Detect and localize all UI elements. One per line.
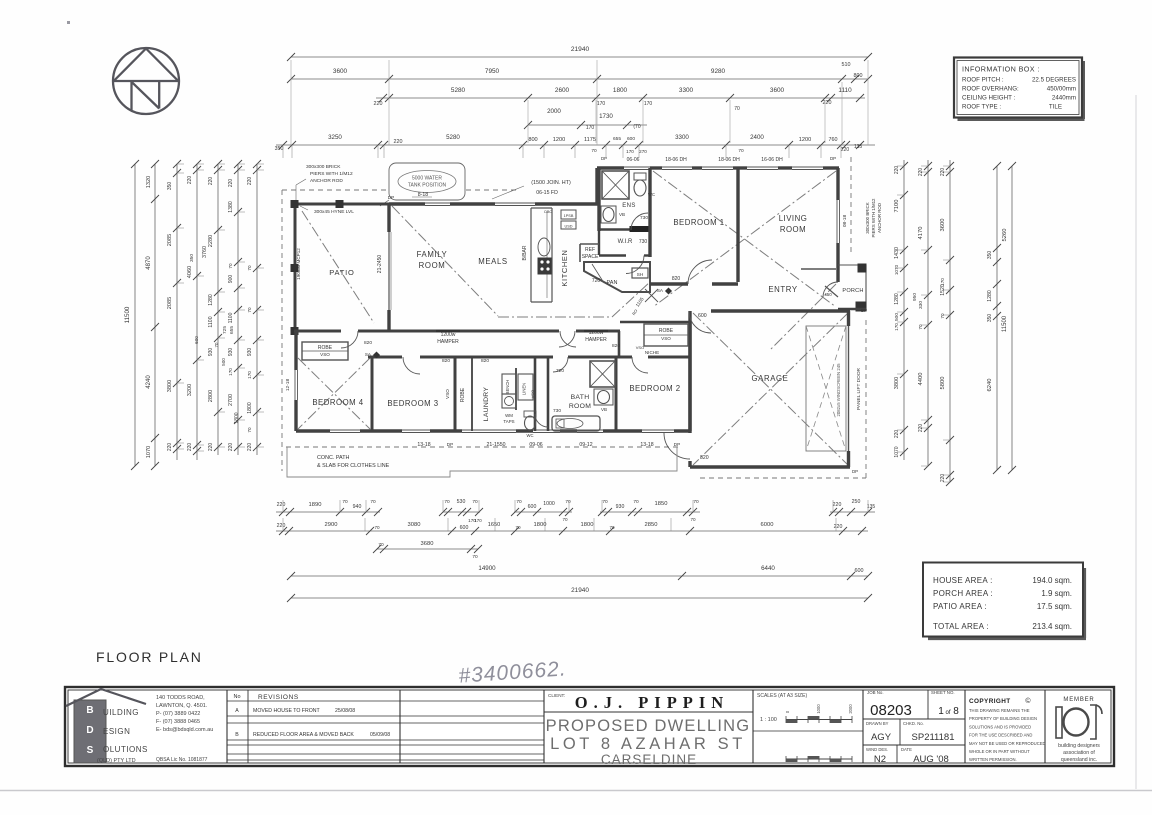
wall ens-wir divider bbox=[599, 228, 632, 230]
svg-text:P- (07) 3889 0422: P- (07) 3889 0422 bbox=[156, 711, 200, 717]
svg-text:1 : 100: 1 : 100 bbox=[760, 717, 777, 723]
dimension row 5280-2600-1800-3300-3600 bbox=[376, 97, 865, 99]
svg-text:BEDROOM 1: BEDROOM 1 bbox=[673, 218, 724, 227]
svg-text:930: 930 bbox=[208, 348, 214, 357]
ref space nook bbox=[580, 243, 599, 245]
svg-text:SA: SA bbox=[657, 288, 664, 293]
svg-text:1070: 1070 bbox=[146, 446, 152, 458]
svg-text:70: 70 bbox=[378, 542, 384, 548]
kitchen upper boxes bbox=[561, 210, 576, 219]
svg-text:600: 600 bbox=[528, 504, 537, 510]
svg-text:11500: 11500 bbox=[1002, 315, 1008, 332]
svg-text:213.4 sqm.: 213.4 sqm. bbox=[1032, 622, 1072, 631]
svg-text:655: 655 bbox=[613, 136, 621, 142]
svg-text:170: 170 bbox=[626, 149, 634, 154]
patio pier left-bottom bbox=[291, 328, 298, 335]
svg-text:600: 600 bbox=[460, 525, 469, 531]
scan artifact speck bbox=[67, 21, 70, 24]
wall garage top bbox=[711, 309, 850, 312]
svg-text:3080: 3080 bbox=[408, 522, 421, 528]
porch column bottom bbox=[856, 302, 866, 311]
svg-text:VSO: VSO bbox=[636, 345, 644, 350]
svg-text:TOTAL AREA :: TOTAL AREA : bbox=[933, 622, 989, 631]
svg-text:2000: 2000 bbox=[848, 704, 853, 714]
svg-text:3200: 3200 bbox=[187, 384, 193, 396]
svg-text:350: 350 bbox=[189, 254, 195, 262]
svg-text:220: 220 bbox=[228, 443, 234, 452]
svg-text:2085: 2085 bbox=[167, 234, 173, 246]
svg-text:ROOF PITCH :: ROOF PITCH : bbox=[962, 77, 1004, 84]
svg-text:JOB No.: JOB No. bbox=[867, 690, 884, 695]
kitchen sink bbox=[538, 238, 550, 256]
svg-text:170: 170 bbox=[474, 518, 482, 523]
svg-text:220: 220 bbox=[208, 177, 214, 186]
svg-text:2850: 2850 bbox=[645, 522, 658, 528]
ceiling line bed1-living diagonal a bbox=[653, 171, 836, 307]
svg-text:820: 820 bbox=[700, 455, 709, 461]
svg-text:MAY NOT BE USED OR REPRODUCED: MAY NOT BE USED OR REPRODUCED bbox=[969, 741, 1046, 746]
conc path outline bbox=[287, 447, 677, 477]
svg-text:1380: 1380 bbox=[228, 201, 234, 213]
svg-text:CONC. PATH: CONC. PATH bbox=[317, 455, 350, 461]
svg-text:THIS DRAWING REMAINS THE: THIS DRAWING REMAINS THE bbox=[969, 708, 1030, 713]
wall patio top bbox=[294, 203, 389, 206]
wall entry right below porch bbox=[836, 267, 839, 282]
wall ens east bbox=[648, 168, 651, 257]
svg-text:14900: 14900 bbox=[478, 565, 496, 572]
svg-text:AGY: AGY bbox=[871, 732, 892, 743]
svg-text:1070: 1070 bbox=[894, 264, 899, 275]
wc door arc bbox=[535, 414, 548, 427]
svg-text:of: of bbox=[945, 710, 950, 716]
svg-text:2400: 2400 bbox=[750, 134, 764, 141]
svg-text:DP: DP bbox=[388, 195, 394, 200]
svg-text:730: 730 bbox=[553, 408, 561, 414]
laundry tub bbox=[502, 394, 516, 408]
svg-text:DP: DP bbox=[674, 442, 680, 447]
svg-text:1850: 1850 bbox=[655, 501, 668, 507]
svg-text:220: 220 bbox=[374, 101, 383, 107]
svg-text:1200: 1200 bbox=[799, 137, 811, 143]
dimension column left 2280-1280-1100-930-2800 bbox=[217, 164, 219, 455]
svg-text:5280: 5280 bbox=[446, 134, 460, 141]
svg-text:300x300 BRICK: 300x300 BRICK bbox=[306, 164, 341, 170]
window 12-18 bed4 left bbox=[294, 370, 296, 400]
svg-text:350: 350 bbox=[987, 251, 993, 260]
svg-text:08203: 08203 bbox=[870, 702, 912, 719]
svg-text:220: 220 bbox=[894, 430, 900, 439]
svg-text:LAUNDRY: LAUNDRY bbox=[483, 387, 490, 422]
dimension column right 7100-1430-1280-3800 bbox=[903, 160, 905, 460]
svg-text:9280: 9280 bbox=[711, 68, 726, 75]
ceiling line bedroom4 diagonal b bbox=[298, 358, 370, 429]
svg-text:WM: WM bbox=[505, 413, 513, 418]
svg-text:NICHE: NICHE bbox=[645, 350, 659, 355]
ceiling line patio diagonal bbox=[302, 211, 374, 323]
svg-text:PATIO AREA :: PATIO AREA : bbox=[933, 602, 987, 611]
svg-text:220: 220 bbox=[940, 474, 946, 483]
svg-text:WIND DES.: WIND DES. bbox=[866, 747, 888, 752]
svg-text:CLIENT:: CLIENT: bbox=[548, 693, 565, 698]
svg-text:220: 220 bbox=[228, 179, 234, 188]
svg-text:170: 170 bbox=[597, 101, 606, 107]
wall garage right lower bbox=[847, 451, 850, 467]
svg-text:270: 270 bbox=[639, 149, 647, 154]
svg-text:PATIO: PATIO bbox=[329, 268, 354, 277]
svg-text:4400: 4400 bbox=[918, 373, 924, 386]
door 09-06 laundry bbox=[462, 429, 516, 431]
svg-text:VSO: VSO bbox=[661, 336, 671, 341]
svg-text:BEDROOM 4: BEDROOM 4 bbox=[312, 398, 363, 407]
svg-text:1PSB: 1PSB bbox=[564, 214, 574, 218]
svg-text:WRITTEN PERMISSION.: WRITTEN PERMISSION. bbox=[969, 757, 1017, 762]
wall wc-bath west bbox=[534, 357, 537, 431]
svg-text:330: 330 bbox=[918, 301, 924, 309]
svg-text:70: 70 bbox=[228, 263, 233, 269]
svg-text:70: 70 bbox=[374, 525, 380, 530]
svg-text:CEILING HEIGHT :: CEILING HEIGHT : bbox=[962, 95, 1015, 102]
dimension column left 220-4060-3200-220 bbox=[196, 164, 198, 460]
dimension row 21940 top bbox=[291, 56, 868, 58]
svg-text:600: 600 bbox=[855, 568, 864, 574]
svg-text:PROPOSED DWELLING: PROPOSED DWELLING bbox=[546, 717, 751, 735]
window small laundry bbox=[533, 429, 560, 431]
svg-text:1070: 1070 bbox=[894, 446, 900, 457]
svg-text:WC: WC bbox=[648, 192, 655, 197]
svg-text:association of: association of bbox=[1063, 750, 1095, 756]
svg-text:CARSELDINE: CARSELDINE bbox=[601, 752, 697, 767]
svg-text:350: 350 bbox=[275, 146, 284, 152]
svg-text:1200w: 1200w bbox=[441, 332, 456, 338]
svg-text:70: 70 bbox=[515, 525, 521, 530]
wir door arc bbox=[626, 256, 644, 274]
svg-text:1280: 1280 bbox=[208, 294, 214, 306]
svg-text:760: 760 bbox=[829, 137, 838, 143]
svg-text:1100: 1100 bbox=[228, 312, 234, 323]
wall hall south / bedrooms north bbox=[368, 356, 402, 359]
svg-text:INFORMATION BOX :: INFORMATION BOX : bbox=[962, 65, 1040, 74]
dimension column left 1320-4870-4240-1070 bbox=[154, 164, 156, 466]
svg-text:VSO: VSO bbox=[445, 389, 450, 399]
svg-text:ROOF TYPE :: ROOF TYPE : bbox=[962, 104, 1001, 111]
svg-text:4060: 4060 bbox=[187, 266, 193, 278]
window 18-06 living a bbox=[747, 166, 778, 168]
wall house bottom with windows bbox=[296, 429, 330, 432]
dimension bottom chain row A bbox=[276, 511, 380, 513]
svg-text:5280: 5280 bbox=[451, 87, 466, 94]
svg-text:ROOM: ROOM bbox=[419, 261, 446, 270]
shelf SH box bbox=[632, 268, 648, 278]
svg-text:PROPERTY OF BUILDING DESIGN: PROPERTY OF BUILDING DESIGN bbox=[969, 716, 1037, 721]
wall garage west bbox=[688, 311, 691, 433]
svg-text:LAWNTON, Q. 4501.: LAWNTON, Q. 4501. bbox=[156, 703, 208, 709]
window 8-18 meals top bbox=[425, 202, 450, 204]
svg-text:06-15 FD: 06-15 FD bbox=[536, 190, 558, 196]
svg-text:COPYRIGHT: COPYRIGHT bbox=[969, 698, 1011, 705]
bed1 door arc bbox=[688, 260, 712, 284]
svg-text:170: 170 bbox=[228, 368, 233, 376]
svg-text:2280: 2280 bbox=[208, 235, 214, 247]
svg-text:DRAWN BY: DRAWN BY bbox=[866, 721, 889, 726]
roof overhang dashed line bottom garage bbox=[700, 477, 866, 479]
svg-text:1200: 1200 bbox=[553, 137, 565, 143]
wall bed1-living divider bbox=[736, 168, 739, 282]
svg-text:220: 220 bbox=[918, 424, 924, 433]
svg-text:ROBE: ROBE bbox=[460, 387, 466, 402]
svg-text:70: 70 bbox=[562, 517, 568, 522]
svg-text:ROOM: ROOM bbox=[569, 403, 591, 410]
wall wir west bbox=[598, 231, 600, 255]
bed4 door arc bbox=[341, 331, 358, 348]
ceiling line family diagonal bbox=[392, 206, 498, 316]
svg-text:1650: 1650 bbox=[488, 522, 500, 528]
svg-text:450: 450 bbox=[824, 292, 832, 297]
svg-text:06-06: 06-06 bbox=[627, 157, 640, 163]
svg-text:3300: 3300 bbox=[675, 134, 689, 141]
svg-text:11500: 11500 bbox=[124, 306, 131, 323]
svg-text:3800: 3800 bbox=[167, 380, 173, 392]
svg-text:queensland inc.: queensland inc. bbox=[1061, 757, 1097, 763]
scale bar 1 bbox=[786, 719, 852, 721]
svg-text:250: 250 bbox=[852, 499, 861, 505]
wall bed1 south bbox=[650, 282, 688, 285]
kitchen 1105 cross bbox=[645, 289, 658, 302]
svg-text:building designers: building designers bbox=[1058, 743, 1100, 749]
svg-text:350: 350 bbox=[987, 314, 993, 323]
svg-text:220: 220 bbox=[247, 443, 253, 452]
svg-text:REVISIONS: REVISIONS bbox=[258, 694, 299, 701]
window 18-06 bed1 a bbox=[662, 166, 692, 168]
svg-text:BENCH: BENCH bbox=[505, 380, 510, 395]
svg-text:3680: 3680 bbox=[421, 541, 434, 547]
svg-text:725: 725 bbox=[222, 326, 228, 334]
svg-text:ENTRY: ENTRY bbox=[768, 285, 797, 294]
bed2 robe box bbox=[644, 324, 688, 346]
svg-text:70: 70 bbox=[247, 265, 252, 271]
svg-text:220: 220 bbox=[208, 443, 214, 452]
wall laundry east / linen bbox=[515, 368, 517, 410]
svg-text:1730: 1730 bbox=[599, 113, 613, 120]
svg-text:1280: 1280 bbox=[894, 293, 900, 305]
hall double arc bbox=[559, 331, 575, 347]
svg-text:1800: 1800 bbox=[234, 412, 240, 423]
patio pier left-mid bbox=[291, 265, 298, 272]
svg-text:70: 70 bbox=[738, 148, 744, 154]
svg-text:A: A bbox=[235, 708, 239, 714]
svg-text:300x300 BRICK: 300x300 BRICK bbox=[865, 202, 870, 234]
scan artifact page edge bottom bbox=[0, 790, 1152, 792]
svg-text:1.9 sqm.: 1.9 sqm. bbox=[1041, 589, 1072, 598]
svg-text:900: 900 bbox=[228, 275, 234, 284]
svg-text:©: © bbox=[1025, 697, 1031, 705]
svg-text:O.J. PIPPIN: O.J. PIPPIN bbox=[575, 693, 729, 712]
dimension column right 3600-1520-5800 bbox=[949, 160, 951, 482]
svg-text:PANEL LIFT DOOR: PANEL LIFT DOOR bbox=[856, 367, 862, 410]
wall bed3 east / robe bbox=[454, 357, 457, 431]
svg-text:70: 70 bbox=[247, 427, 252, 433]
revisions panel bbox=[247, 690, 249, 763]
svg-text:HAMPER: HAMPER bbox=[437, 339, 459, 345]
svg-text:220: 220 bbox=[187, 443, 193, 452]
laundry bench bbox=[502, 374, 516, 394]
svg-text:18-06 DH: 18-06 DH bbox=[665, 157, 687, 163]
svg-text:AUG '08: AUG '08 bbox=[913, 754, 949, 765]
svg-text:1800: 1800 bbox=[613, 87, 628, 94]
svg-text:2000: 2000 bbox=[547, 108, 561, 115]
bds logo house bbox=[74, 700, 106, 763]
wall right living bbox=[836, 168, 839, 200]
svg-text:SCALES (AT A3 SIZE): SCALES (AT A3 SIZE) bbox=[757, 693, 807, 699]
svg-text:DP: DP bbox=[861, 308, 867, 313]
wall family south / hall north bbox=[294, 330, 341, 333]
robe bed3 divider thin bbox=[471, 357, 473, 431]
svg-text:SPACE: SPACE bbox=[582, 254, 599, 260]
roof overhang dashed line bottom bbox=[286, 446, 678, 448]
svg-text:N2: N2 bbox=[874, 754, 886, 765]
svg-text:600: 600 bbox=[698, 313, 707, 319]
ceiling ridge line family-meals bbox=[498, 316, 612, 318]
svg-text:8: 8 bbox=[953, 706, 959, 717]
svg-text:70: 70 bbox=[214, 342, 219, 347]
svg-text:930: 930 bbox=[616, 504, 625, 510]
svg-text:220: 220 bbox=[894, 166, 900, 175]
svg-text:PIERS WITH 1/M12: PIERS WITH 1/M12 bbox=[871, 198, 876, 238]
svg-text:B: B bbox=[235, 732, 239, 738]
svg-text:B: B bbox=[86, 705, 93, 716]
svg-text:MEMBER: MEMBER bbox=[1063, 697, 1094, 703]
svg-text:GARAGE: GARAGE bbox=[752, 374, 789, 383]
svg-text:DP: DP bbox=[830, 156, 836, 161]
svg-text:WHOLE OR IN PART WITHOUT: WHOLE OR IN PART WITHOUT bbox=[969, 749, 1030, 754]
window 09-12 bath bbox=[577, 429, 603, 431]
window 21-1550 bed3 bbox=[402, 429, 430, 431]
svg-text:VSO: VSO bbox=[320, 352, 330, 357]
svg-text:13-18: 13-18 bbox=[417, 442, 430, 448]
svg-text:16-06 DH: 16-06 DH bbox=[761, 157, 783, 163]
svg-text:70: 70 bbox=[633, 499, 639, 505]
svg-text:3300: 3300 bbox=[679, 87, 694, 94]
svg-text:MOVED HOUSE TO FRONT: MOVED HOUSE TO FRONT bbox=[253, 708, 321, 714]
ens door arc bbox=[631, 213, 648, 230]
ceiling line garage diagonal a bbox=[693, 313, 848, 465]
svg-text:70: 70 bbox=[247, 307, 252, 313]
svg-text:(70: (70 bbox=[633, 124, 640, 130]
svg-text:140 TODDS ROAD,: 140 TODDS ROAD, bbox=[156, 695, 205, 701]
svg-text:720: 720 bbox=[556, 368, 564, 374]
svg-text:1: 1 bbox=[938, 706, 944, 717]
svg-text:PAN: PAN bbox=[607, 280, 618, 286]
svg-text:SH: SH bbox=[637, 272, 643, 277]
svg-text:300x45 HYNE LVL: 300x45 HYNE LVL bbox=[314, 209, 354, 215]
dimension bottom row 21940 bbox=[291, 597, 868, 599]
wall wir south bbox=[599, 254, 626, 256]
svg-text:ENS: ENS bbox=[622, 203, 636, 209]
svg-text:(QLD) PTY LTD: (QLD) PTY LTD bbox=[97, 758, 136, 764]
wall bath east / bed2 west bbox=[615, 357, 618, 431]
svg-text:21940: 21940 bbox=[571, 587, 589, 594]
svg-text:70: 70 bbox=[693, 499, 699, 505]
svg-text:530: 530 bbox=[457, 499, 466, 505]
svg-text:UILDING: UILDING bbox=[103, 708, 139, 717]
bed3 door arc bbox=[403, 357, 420, 374]
patio pier top-left bbox=[291, 201, 298, 208]
svg-text:820: 820 bbox=[364, 340, 372, 346]
svg-text:70: 70 bbox=[734, 106, 740, 112]
area summary box bbox=[928, 637, 1086, 640]
svg-text:194.0 sqm.: 194.0 sqm. bbox=[1032, 576, 1072, 585]
svg-text:70: 70 bbox=[591, 148, 597, 154]
roof overhang dashed line left bbox=[281, 190, 283, 471]
ceiling line bedroom4 diagonal a bbox=[298, 358, 370, 429]
svg-text:1800: 1800 bbox=[534, 522, 547, 528]
pantry outline bbox=[584, 262, 650, 292]
scale bar 2 bbox=[786, 758, 852, 760]
svg-text:2082x5 WINDSCREEN 245: 2082x5 WINDSCREEN 245 bbox=[836, 363, 841, 417]
svg-text:70: 70 bbox=[565, 499, 571, 505]
svg-text:3800: 3800 bbox=[894, 377, 900, 389]
roof overhang dashed line top-mid bbox=[466, 189, 518, 191]
svg-text:70: 70 bbox=[516, 499, 522, 505]
svg-text:220: 220 bbox=[247, 177, 253, 186]
svg-text:4240: 4240 bbox=[146, 375, 152, 389]
svg-text:USD: USD bbox=[564, 225, 572, 229]
svg-text:2900: 2900 bbox=[325, 522, 338, 528]
svg-text:22.5 DEGREES: 22.5 DEGREES bbox=[1032, 77, 1076, 84]
svg-text:170: 170 bbox=[644, 101, 653, 107]
svg-text:500: 500 bbox=[221, 358, 226, 366]
patio pier top-mid bbox=[336, 201, 343, 208]
svg-text:4870: 4870 bbox=[146, 256, 152, 270]
svg-text:PORCH AREA :: PORCH AREA : bbox=[933, 589, 993, 598]
svg-text:LIVING: LIVING bbox=[779, 214, 808, 223]
svg-text:220: 220 bbox=[834, 524, 843, 530]
dimension column left inner bbox=[256, 164, 258, 455]
svg-text:21940: 21940 bbox=[571, 46, 590, 53]
svg-text:FAMILY: FAMILY bbox=[417, 250, 448, 259]
dimension row 3250-5280-... bbox=[276, 144, 875, 146]
information box bbox=[958, 118, 1085, 121]
living half wall ledge bbox=[801, 268, 836, 270]
svg-text:350: 350 bbox=[167, 182, 173, 191]
svg-text:730: 730 bbox=[640, 215, 648, 221]
bath vanity bbox=[594, 389, 613, 405]
svg-text:ESIGN: ESIGN bbox=[103, 727, 130, 736]
svg-text:09-06: 09-06 bbox=[529, 442, 542, 448]
svg-text:DATE: DATE bbox=[901, 747, 912, 752]
wall family-meals top, window gaps bbox=[389, 202, 425, 205]
svg-text:DP: DP bbox=[852, 469, 858, 474]
kitchen oven dark bbox=[538, 258, 551, 274]
wall top main, window gaps bbox=[597, 166, 624, 169]
bed2 door arc bbox=[632, 357, 648, 373]
door garage rear arc bbox=[664, 433, 690, 459]
svg-text:SOLUTIONS AND IS PROVIDED: SOLUTIONS AND IS PROVIDED bbox=[969, 724, 1031, 729]
garage panel-lift door dashed rail bbox=[806, 326, 846, 451]
bed2 robe top wall bbox=[620, 321, 690, 324]
svg-text:OLUTIONS: OLUTIONS bbox=[103, 745, 148, 754]
dimension row 3600-7950-9280 bbox=[291, 78, 868, 80]
svg-text:VB: VB bbox=[619, 212, 625, 217]
svg-text:B/BAR: B/BAR bbox=[522, 245, 528, 260]
garage door east thin bbox=[848, 326, 850, 451]
svg-text:220: 220 bbox=[940, 168, 946, 177]
svg-text:7950: 7950 bbox=[485, 68, 500, 75]
svg-text:800: 800 bbox=[528, 137, 537, 143]
ceiling line kitchen diagonal bbox=[612, 282, 650, 317]
stacker door 21-2450 bbox=[388, 232, 390, 310]
svg-text:QBSA Lic No. 1081877: QBSA Lic No. 1081877 bbox=[156, 757, 208, 763]
svg-text:5800: 5800 bbox=[940, 377, 946, 390]
